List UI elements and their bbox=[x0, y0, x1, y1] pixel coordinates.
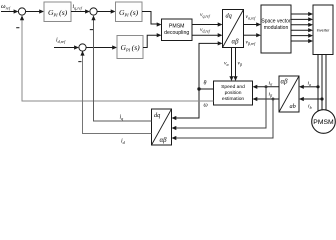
block speed and position estimation bbox=[214, 81, 253, 105]
node S1 minus sign bbox=[16, 27, 19, 29]
svg-text:ω: ω bbox=[204, 103, 208, 109]
block PMSM decoupling bbox=[162, 19, 193, 41]
wire i_q feedback to summer S2 bbox=[94, 17, 152, 122]
svg-text:αβ: αβ bbox=[281, 79, 289, 86]
wire S2 to G_PI iq bbox=[97, 9, 115, 13]
wire i_d,ref to summer S3 bbox=[54, 45, 79, 49]
svg-text:iq,ref: iq,ref bbox=[73, 4, 83, 12]
block inverter bbox=[313, 5, 333, 55]
wire i_beta branch down to dq transform bbox=[176, 99, 273, 138]
summer S3 bbox=[79, 44, 86, 51]
wire S1 to G_PI speed bbox=[26, 9, 44, 13]
wire theta down to dq transform bbox=[176, 89, 199, 118]
wire S3 to G_PI id bbox=[86, 45, 117, 49]
svg-text:id,ref: id,ref bbox=[56, 38, 66, 46]
svg-text:Speed and: Speed and bbox=[221, 84, 245, 90]
svg-text:PMSM: PMSM bbox=[313, 119, 334, 126]
svg-text:ab: ab bbox=[290, 103, 296, 110]
node i_alpha branch junction bbox=[265, 85, 268, 88]
block ab to alpha-beta transform bbox=[279, 76, 299, 112]
block dq to alpha-beta transform bbox=[223, 10, 244, 48]
block G_PI id current controller bbox=[117, 36, 143, 59]
wire decoupling out v_q,ref to dq->ab transform bbox=[192, 22, 223, 26]
svg-text:ib: ib bbox=[308, 104, 312, 110]
block alpha-beta to dq transform bbox=[152, 109, 172, 145]
svg-text:αβ: αβ bbox=[232, 39, 240, 46]
svg-text:iq: iq bbox=[120, 114, 124, 121]
svg-text:PMSM: PMSM bbox=[169, 24, 185, 30]
wire dq box out v_beta,ref to SVM bbox=[244, 33, 262, 37]
wire v_beta down to speed estimator bbox=[235, 48, 237, 78]
block space vector modulation bbox=[261, 5, 291, 53]
svg-text:vq,ref: vq,ref bbox=[200, 12, 211, 19]
wire i_b tap to ab->alpha-beta box bbox=[302, 98, 322, 100]
wire theta up to dq->ab transform bbox=[199, 43, 218, 89]
node i_beta branch junction bbox=[272, 98, 275, 101]
wire phase b line bbox=[321, 55, 323, 110]
svg-text:modulation: modulation bbox=[264, 25, 289, 31]
summer S2 bbox=[90, 8, 97, 15]
wire i_alpha to speed estimator bbox=[256, 86, 279, 88]
svg-text:dq: dq bbox=[226, 13, 232, 20]
node i_b tap junction bbox=[320, 97, 323, 100]
svg-text:GPI (s): GPI (s) bbox=[121, 43, 141, 53]
svg-text:vβ,ref: vβ,ref bbox=[246, 40, 257, 47]
svg-text:decoupling: decoupling bbox=[164, 30, 189, 36]
svg-text:estimation: estimation bbox=[222, 96, 245, 102]
wire phase c line bbox=[325, 55, 327, 111]
svg-text:GPI (s): GPI (s) bbox=[48, 8, 68, 17]
svg-text:GPI (s): GPI (s) bbox=[119, 8, 139, 17]
node S3 minus sign bbox=[78, 61, 81, 63]
node theta junction dot bbox=[197, 87, 200, 90]
node i_a tap junction bbox=[316, 85, 319, 88]
wire G_PI id out to PMSM decoupling input 2 bbox=[143, 35, 157, 47]
svg-text:dq: dq bbox=[154, 112, 160, 119]
wire dq box out v_alpha,ref to SVM bbox=[244, 22, 262, 26]
wire i_beta to speed estimator bbox=[256, 98, 279, 100]
wires SVM to inverter: 6 gate signals bbox=[291, 12, 313, 43]
svg-text:θ: θ bbox=[204, 81, 207, 87]
wire phase a line bbox=[317, 55, 319, 111]
wire decoupling out v_d,ref to dq->ab transform bbox=[192, 33, 223, 37]
block G_PI speed controller bbox=[44, 2, 71, 22]
wire G_PI speed out, label i_q,ref, to summer S2 bbox=[71, 9, 90, 13]
block G_PI iq current controller bbox=[116, 2, 143, 22]
svg-text:αβ: αβ bbox=[160, 137, 168, 144]
svg-text:vβ: vβ bbox=[238, 61, 242, 67]
svg-text:ia: ia bbox=[308, 81, 312, 87]
block PMSM motor bbox=[312, 110, 336, 134]
wire omega_ref to summer S1 bbox=[1, 9, 18, 13]
wire theta output to junction bbox=[199, 88, 214, 90]
wire G_PI iq out to PMSM decoupling input 1 bbox=[142, 12, 157, 25]
wire omega feedback to summer S1 bbox=[22, 17, 214, 102]
svg-text:iβ: iβ bbox=[269, 92, 273, 98]
svg-text:Space vector: Space vector bbox=[261, 19, 291, 25]
svg-text:Inverter: Inverter bbox=[317, 29, 331, 33]
wire i_alpha branch down to dq transform bbox=[176, 87, 266, 128]
summer S1 bbox=[18, 8, 25, 15]
wire i_d feedback to summer S3 bbox=[83, 52, 152, 134]
wire i_a tap to ab->alpha-beta box bbox=[302, 86, 318, 88]
svg-text:vα,ref: vα,ref bbox=[246, 14, 257, 21]
svg-text:vd,ref: vd,ref bbox=[200, 27, 211, 34]
svg-text:position: position bbox=[225, 90, 242, 96]
node S2 minus sign bbox=[90, 29, 93, 31]
wire v_alpha down to speed estimator bbox=[231, 48, 233, 78]
